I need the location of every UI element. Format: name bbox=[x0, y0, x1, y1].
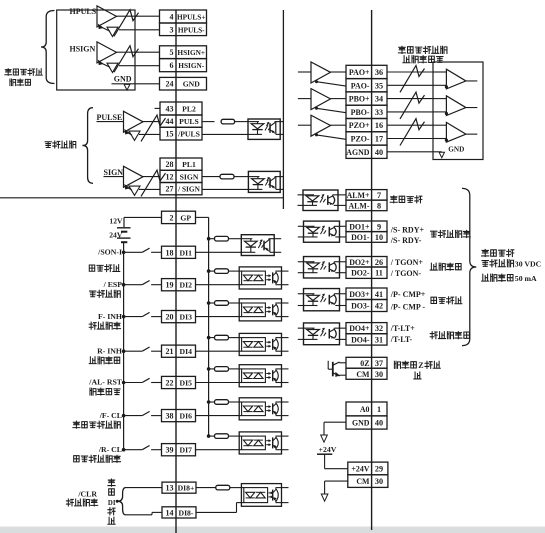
ground symbol (24V return) bbox=[321, 494, 328, 501]
svg-text:17: 17 bbox=[375, 134, 383, 143]
label 伺服报警 bbox=[390, 196, 397, 203]
junction COM+ bus to R-DI6 bbox=[207, 400, 211, 404]
svg-text:/F- CL: /F- CL bbox=[99, 411, 122, 420]
wire pin 2 GP to COM+ bus bbox=[196, 216, 209, 218]
svg-text:20: 20 bbox=[166, 313, 174, 322]
svg-text:35: 35 bbox=[375, 81, 383, 90]
svg-text:GND: GND bbox=[448, 145, 464, 153]
connector pin 36 PAO+ bbox=[346, 65, 387, 78]
svg-text:GND: GND bbox=[183, 80, 201, 89]
wire pin 44 to resistor R1 bbox=[202, 121, 215, 123]
optocoupler DI6 bbox=[239, 398, 281, 420]
label 光耦输出 bbox=[482, 249, 489, 256]
optocoupler DO4 output bbox=[304, 323, 340, 345]
svg-text:DO1+: DO1+ bbox=[349, 222, 370, 231]
twisted pair mark encoder 2 bbox=[400, 92, 425, 119]
svg-text:44: 44 bbox=[166, 117, 174, 126]
wire resistor to optocoupler DI7 bbox=[229, 435, 240, 437]
svg-text:+24V: +24V bbox=[319, 445, 337, 454]
label 报警复位 bbox=[90, 388, 96, 395]
svg-text:DI2: DI2 bbox=[180, 281, 193, 290]
ground symbol (receiver) bbox=[439, 152, 444, 157]
svg-text:28: 28 bbox=[166, 160, 174, 169]
brace - opto outputs group bbox=[462, 188, 476, 345]
wire /SIGN to pin 27 bbox=[139, 188, 160, 190]
connector pin 40 GND bbox=[346, 416, 387, 429]
external battery 12V/24V bbox=[123, 217, 125, 227]
wire CM pin to ground bbox=[325, 480, 348, 482]
svg-text:18: 18 bbox=[166, 248, 174, 257]
connector pin 35 PAO- bbox=[346, 79, 387, 92]
connector pin 3 HPULS- bbox=[160, 23, 207, 36]
wire pin 12 to resistor R2 bbox=[202, 176, 220, 178]
svg-text:/ TGON-: / TGON- bbox=[390, 269, 422, 278]
svg-text:PBO+: PBO+ bbox=[349, 95, 370, 104]
wire to pin 13 DI8+ bbox=[126, 487, 163, 489]
scan artifact grey band at bottom bbox=[0, 527, 545, 533]
svg-text:4: 4 bbox=[170, 13, 174, 22]
twisted pair mark HSIGN bbox=[114, 46, 139, 72]
connector pin 29 +24V bbox=[348, 462, 388, 475]
wire +24V to pin 29 bbox=[325, 468, 348, 470]
svg-text:5: 5 bbox=[170, 48, 174, 57]
wire AGND to receiver ground bbox=[387, 151, 442, 153]
svg-text:CM: CM bbox=[356, 370, 370, 379]
connector pin 41 DO3+ bbox=[346, 288, 387, 300]
svg-text:6: 6 bbox=[170, 61, 174, 70]
connector pin 26 DO2+ bbox=[346, 257, 387, 268]
svg-text:19: 19 bbox=[166, 281, 174, 290]
switch DI4 bbox=[122, 349, 126, 353]
label 编码器分频脉 bbox=[398, 46, 405, 53]
resistor R2 (SIGN) bbox=[220, 174, 234, 179]
wire PULSE input bbox=[97, 121, 124, 123]
svg-text:PAO-: PAO- bbox=[351, 81, 370, 90]
wire pin 14 to optocoupler DI8 (jog) bbox=[196, 511, 237, 513]
svg-text:36: 36 bbox=[375, 68, 383, 77]
connector pin 21 DI4 bbox=[162, 345, 196, 357]
wire HPULS- to pin 3 bbox=[119, 29, 160, 31]
svg-text:33: 33 bbox=[375, 108, 383, 117]
svg-text:9: 9 bbox=[377, 222, 381, 231]
connector pin 37 0Z bbox=[346, 357, 387, 368]
receiver triangle U9 bbox=[446, 96, 466, 116]
svg-text:AGND: AGND bbox=[346, 148, 370, 157]
label 高速脉冲位置指令 bbox=[5, 69, 12, 76]
connector pin 17 PZO- bbox=[346, 132, 387, 145]
wire pin 20 to optocoupler DI3 bbox=[196, 316, 240, 318]
svg-text:26: 26 bbox=[375, 258, 383, 267]
wire GND to pin 24 bbox=[112, 83, 160, 85]
wire battery minus bus bbox=[123, 242, 125, 450]
optocoupler DI7 bbox=[239, 432, 281, 454]
connector pin 30 CM bbox=[346, 368, 387, 379]
line driver HSIGN U2 bbox=[97, 42, 117, 63]
wire PULS to pin 44 bbox=[143, 121, 160, 123]
switch DI5 bbox=[122, 381, 126, 385]
label 反转禁止 bbox=[89, 357, 96, 364]
svg-text:41: 41 bbox=[375, 290, 383, 299]
wire encoder pair 2 to receiver bbox=[387, 98, 433, 100]
label 高速DI通道 (vertical) bbox=[108, 479, 115, 486]
ground symbol (host) bbox=[124, 84, 130, 90]
connector pin 8 ALM- bbox=[346, 200, 387, 211]
svg-text:7: 7 bbox=[377, 191, 381, 200]
svg-text:2: 2 bbox=[170, 213, 174, 222]
optocoupler DO2 output bbox=[304, 257, 340, 278]
svg-text:ALM+: ALM+ bbox=[347, 191, 370, 200]
connector pin 43 PL2 bbox=[160, 102, 202, 115]
svg-text:/P- CMP -: /P- CMP - bbox=[390, 302, 426, 311]
label 反转转矩限制 bbox=[74, 456, 79, 462]
svg-text:43: 43 bbox=[166, 105, 174, 114]
connector pin 40 AGND bbox=[346, 145, 387, 158]
svg-text:DO2+: DO2+ bbox=[349, 258, 370, 267]
svg-text:16: 16 bbox=[375, 121, 383, 130]
svg-text:/ ESP: / ESP bbox=[103, 280, 123, 289]
twisted pair mark PULSE bbox=[141, 115, 166, 141]
label 位置指令 bbox=[45, 142, 51, 148]
svg-text:DI8-: DI8- bbox=[179, 508, 194, 517]
resistor R-DI2 bbox=[215, 269, 229, 274]
junction COM+ bus to R-DI5 bbox=[207, 367, 211, 371]
optocoupler DI1 bbox=[241, 235, 274, 256]
twisted pair mark HPULS bbox=[114, 10, 139, 37]
resistor R-DI4 bbox=[215, 335, 229, 340]
svg-text:PBO-: PBO- bbox=[351, 108, 370, 117]
wire SIGN to pin 12 bbox=[143, 176, 160, 178]
wire pin 39 to optocoupler DI7 bbox=[196, 449, 240, 451]
connector pin 16 PZO+ bbox=[346, 119, 387, 132]
resistor R-DI1 bbox=[215, 236, 229, 241]
svg-text:14: 14 bbox=[166, 508, 174, 517]
wire to pin 14 DI8- bbox=[126, 514, 153, 516]
connector pin 7 ALM+ bbox=[346, 190, 387, 201]
svg-text:+24V: +24V bbox=[351, 464, 369, 473]
svg-text:/T-LT+: /T-LT+ bbox=[390, 324, 415, 333]
svg-text:R- INH: R- INH bbox=[97, 346, 122, 355]
encoder buffer U7 bbox=[298, 124, 311, 126]
receiver box (host side) bbox=[433, 62, 483, 160]
wire HSIGN+ to pin 5 bbox=[117, 51, 160, 53]
svg-text:38: 38 bbox=[166, 412, 174, 421]
svg-text:34: 34 bbox=[375, 95, 383, 104]
svg-text:DO1-: DO1- bbox=[351, 233, 370, 242]
connector pin 42 DO3- bbox=[346, 300, 387, 312]
svg-text:SIGN: SIGN bbox=[104, 168, 124, 177]
optocoupler DO1 output bbox=[304, 221, 340, 242]
wire stub left of pin 43 bbox=[155, 107, 161, 109]
transistor Q1 (open collector Z output) bbox=[332, 362, 334, 377]
svg-text:30: 30 bbox=[375, 370, 383, 379]
label 脉冲清除 bbox=[66, 499, 73, 506]
label 紧急停止 bbox=[90, 291, 96, 297]
connector pin 10 DO1- bbox=[346, 232, 387, 243]
optocoupler DI5 bbox=[239, 365, 281, 387]
svg-text:12V: 12V bbox=[109, 217, 123, 226]
wire resistor to optocoupler DI3 bbox=[229, 302, 240, 304]
connector pin 30 CM (bottom) bbox=[348, 475, 388, 488]
switch DI2 bbox=[122, 283, 126, 287]
svg-text:11: 11 bbox=[375, 269, 383, 278]
encoder buffer U5 bbox=[298, 71, 311, 73]
svg-text:PL2: PL2 bbox=[182, 105, 196, 114]
wire pin 27 to optocoupler bbox=[202, 188, 248, 190]
connector pin 19 DI2 bbox=[162, 279, 196, 291]
svg-text:42: 42 bbox=[375, 302, 383, 311]
connector pin 20 DI3 bbox=[162, 311, 196, 323]
svg-text:/AL- RST: /AL- RST bbox=[88, 378, 123, 387]
svg-text:24: 24 bbox=[166, 80, 174, 89]
twisted pair mark encoder 1 bbox=[400, 66, 425, 93]
wire pin 38 to optocoupler DI6 bbox=[196, 415, 240, 417]
svg-text:29: 29 bbox=[375, 464, 383, 473]
connector pin 6 HSIGN- bbox=[160, 59, 207, 72]
connector pin 9 DO1+ bbox=[346, 221, 387, 232]
svg-text:/P- CMP+: /P- CMP+ bbox=[390, 290, 426, 299]
svg-text:HPULS-: HPULS- bbox=[178, 25, 205, 34]
switch DI6 bbox=[122, 414, 126, 418]
junction COM+ bus to R-DI7 bbox=[207, 434, 211, 438]
svg-text:PL1: PL1 bbox=[182, 160, 196, 169]
svg-text:DO4-: DO4- bbox=[351, 335, 370, 344]
switch DI3 bbox=[122, 315, 126, 319]
brace - high speed pulse group bbox=[41, 11, 55, 84]
optocoupler DI4 bbox=[239, 333, 281, 355]
connector pin 39 DI7 bbox=[162, 444, 196, 456]
connector pin 14 DI8- bbox=[162, 507, 196, 518]
connector pin 4 HPULS+ bbox=[160, 10, 207, 23]
svg-text:DO2-: DO2- bbox=[351, 269, 370, 278]
optocoupler SIGN input bbox=[248, 171, 280, 192]
svg-text:30 VDC: 30 VDC bbox=[515, 260, 542, 269]
svg-text:GP: GP bbox=[180, 213, 191, 222]
svg-text:A0: A0 bbox=[360, 405, 370, 414]
svg-text:DI7: DI7 bbox=[180, 446, 193, 455]
wire pin 22 to optocoupler DI5 bbox=[196, 382, 240, 384]
svg-text:DI: DI bbox=[108, 500, 116, 507]
twisted pair mark encoder 3 bbox=[400, 119, 425, 146]
high-speed pulse host controller box bbox=[57, 10, 135, 90]
svg-text:SIGN: SIGN bbox=[180, 172, 199, 181]
svg-text:/CLR: /CLR bbox=[77, 490, 97, 499]
resistor R-DI8 bbox=[216, 485, 230, 490]
label 伺服使能 bbox=[89, 265, 94, 271]
svg-text:DO4+: DO4+ bbox=[349, 324, 370, 333]
svg-text:DO3-: DO3- bbox=[351, 302, 370, 311]
connector pin 22 DI5 bbox=[162, 376, 196, 388]
wire pin 21 to optocoupler DI4 bbox=[196, 350, 240, 352]
svg-text:31: 31 bbox=[375, 335, 383, 344]
receiver triangle U8 bbox=[446, 69, 466, 89]
connector pin 2 GP bbox=[162, 211, 196, 223]
svg-text:21: 21 bbox=[166, 347, 174, 356]
svg-text:8: 8 bbox=[377, 201, 381, 210]
resistor R-DI5 bbox=[215, 367, 229, 372]
svg-text:13: 13 bbox=[166, 484, 174, 493]
connector pin 27 /SIGN bbox=[160, 183, 202, 195]
svg-text:37: 37 bbox=[375, 359, 383, 368]
label 位置到达 bbox=[431, 297, 437, 303]
connector pin 38 DI6 bbox=[162, 410, 196, 422]
svg-text:DO3+: DO3+ bbox=[349, 290, 370, 299]
svg-text:/SON-I: /SON-I bbox=[97, 248, 122, 257]
svg-text:/S- RDY-: /S- RDY- bbox=[390, 236, 422, 245]
connector pin 1 A0 bbox=[346, 402, 387, 416]
connector pin 31 DO4- bbox=[346, 334, 387, 345]
ground symbol (analog) bbox=[321, 435, 328, 442]
svg-text:/T-LT-: /T-LT- bbox=[390, 335, 413, 344]
wire - CN1 left pin-number divider vertical line bbox=[175, 10, 177, 533]
line driver PULSE U3 bbox=[124, 111, 144, 132]
wire SIGN input bbox=[104, 176, 124, 178]
encoder buffer U6 bbox=[298, 98, 311, 100]
svg-text:GND: GND bbox=[114, 75, 132, 84]
svg-text:HSIGN+: HSIGN+ bbox=[177, 48, 205, 57]
svg-text:0Z: 0Z bbox=[360, 359, 369, 368]
svg-text:40: 40 bbox=[375, 419, 383, 428]
+24V power rail symbol bbox=[317, 453, 332, 455]
wire /PULS to pin 15 bbox=[139, 133, 160, 135]
optocoupler DI3 bbox=[239, 299, 281, 321]
svg-text:DI4: DI4 bbox=[180, 347, 193, 356]
svg-text:PULSE: PULSE bbox=[97, 113, 123, 122]
label 伺服准备好 bbox=[431, 231, 437, 237]
line driver HPULS U1 bbox=[97, 6, 117, 27]
svg-text:HSIGN-: HSIGN- bbox=[178, 61, 205, 70]
wire pin 13 to resistor R-DI8 bbox=[196, 487, 216, 489]
wire - CN1 right pin-number divider vertical line bbox=[371, 10, 373, 530]
resistor R1 (PULS) bbox=[221, 119, 235, 124]
junction COM+ bus to R-DI4 bbox=[207, 336, 211, 340]
connector pin 34 PBO+ bbox=[346, 92, 387, 105]
switch DI1 bbox=[122, 251, 126, 255]
wire HSIGN- to pin 6 bbox=[119, 65, 160, 67]
svg-text:CM: CM bbox=[356, 477, 370, 486]
svg-text:/R- CL: /R- CL bbox=[98, 445, 122, 454]
svg-text:/ SIGN: / SIGN bbox=[177, 185, 200, 194]
connector pin 24 GND bbox=[160, 77, 207, 90]
junction COM+ bus to R-DI3 bbox=[207, 301, 211, 305]
twisted pair mark SIGN bbox=[141, 170, 166, 196]
connector pin 12 SIGN bbox=[160, 170, 202, 182]
wire resistor to optocoupler DI1 bbox=[229, 238, 242, 240]
wire resistor to optocoupler DI5 bbox=[229, 368, 240, 370]
brace - position command group bbox=[82, 108, 93, 184]
svg-text:/PULS: /PULS bbox=[177, 130, 200, 139]
svg-text:22: 22 bbox=[166, 379, 174, 388]
svg-text:DI8+: DI8+ bbox=[178, 484, 195, 493]
wire resistor to optocoupler DI8 bbox=[230, 487, 242, 489]
svg-text:15: 15 bbox=[166, 130, 174, 139]
optocoupler ALM output bbox=[303, 190, 338, 211]
connector pin 33 PBO- bbox=[346, 105, 387, 118]
svg-text:32: 32 bbox=[375, 324, 383, 333]
wire HPULS+ to pin 4 bbox=[117, 15, 160, 17]
svg-text:DI3: DI3 bbox=[180, 313, 193, 322]
label 正转转矩限制 bbox=[73, 421, 80, 428]
svg-text:PAO+: PAO+ bbox=[349, 68, 370, 77]
svg-text:50 mA: 50 mA bbox=[515, 274, 537, 283]
svg-text:PZO-: PZO- bbox=[351, 134, 370, 143]
wire pin 15 to optocoupler bbox=[202, 133, 248, 135]
connector pin 13 DI8+ bbox=[162, 482, 196, 493]
label 正转禁止 bbox=[89, 322, 96, 329]
label 转矩限制中 bbox=[430, 332, 437, 339]
svg-text:F- INH: F- INH bbox=[98, 312, 122, 321]
connector pin 44 PULS bbox=[160, 115, 202, 127]
junction COM+ bus to R-DI1 bbox=[207, 237, 211, 241]
svg-text:27: 27 bbox=[166, 185, 174, 194]
label 旋转检出 bbox=[430, 263, 437, 270]
wire resistor to optocoupler DI2 bbox=[229, 270, 240, 272]
label 最大电流50 mA bbox=[482, 274, 489, 281]
svg-text:DI5: DI5 bbox=[180, 379, 193, 388]
optocoupler DO3 output bbox=[304, 289, 340, 311]
svg-text:40: 40 bbox=[375, 148, 383, 157]
optocoupler DI2 bbox=[239, 267, 281, 289]
svg-text:1: 1 bbox=[377, 405, 381, 414]
receiver triangle U10 bbox=[446, 122, 466, 142]
switch DI7 bbox=[122, 448, 126, 452]
svg-text:/ TGON+: / TGON+ bbox=[390, 258, 424, 267]
svg-text:DI1: DI1 bbox=[180, 248, 193, 257]
wire battery to pin 2 GP bbox=[124, 216, 162, 218]
svg-text:HSIGN: HSIGN bbox=[70, 45, 96, 54]
svg-text:HPULS+: HPULS+ bbox=[177, 13, 206, 22]
junction COM+ bus to R-DI2 bbox=[207, 269, 211, 273]
svg-text:HPULS: HPULS bbox=[70, 7, 97, 16]
wire encoder pair 3 to receiver bbox=[387, 124, 433, 126]
optocoupler DI8 bbox=[241, 484, 281, 507]
wire resistor to optocoupler DI6 bbox=[229, 401, 240, 403]
svg-text:ALM-: ALM- bbox=[348, 201, 369, 210]
brace - high speed DI channel bbox=[117, 488, 125, 515]
label 最大电压30 VDC bbox=[482, 261, 488, 267]
svg-text:DI6: DI6 bbox=[180, 412, 193, 421]
wire pin 18 to optocoupler DI1 bbox=[196, 251, 242, 253]
svg-text:PZO+: PZO+ bbox=[349, 121, 370, 130]
connector pin 32 DO4+ bbox=[346, 323, 387, 334]
svg-text:/S- RDY+: /S- RDY+ bbox=[390, 225, 425, 234]
connector pin 28 PL1 bbox=[160, 158, 202, 170]
resistor R-DI7 bbox=[215, 434, 229, 439]
svg-text:39: 39 bbox=[166, 446, 174, 455]
connector pin 18 DI1 bbox=[162, 246, 196, 258]
wire resistor to optocoupler DI4 bbox=[229, 337, 240, 339]
resistor R-DI3 bbox=[215, 301, 229, 306]
connector pin 11 DO2- bbox=[346, 267, 387, 278]
wire GND pin to ground bbox=[324, 421, 346, 423]
svg-text:Z: Z bbox=[418, 361, 423, 370]
svg-text:10: 10 bbox=[375, 233, 383, 242]
connector pin 5 HSIGN+ bbox=[160, 46, 207, 59]
label 冲差分输出 bbox=[403, 56, 410, 63]
optocoupler PULS input bbox=[248, 119, 280, 139]
svg-text:12: 12 bbox=[166, 172, 174, 181]
svg-text:30: 30 bbox=[375, 477, 383, 486]
svg-text:GND: GND bbox=[352, 419, 370, 428]
wire - internal bus vertical line (left optocoupler returns) bbox=[282, 10, 284, 209]
resistor R-DI6 bbox=[215, 400, 229, 405]
wire resistor R2 to optocoupler bbox=[234, 176, 248, 178]
label 出 bbox=[414, 372, 421, 379]
wire encoder pair 1 to receiver bbox=[387, 71, 433, 73]
wire pin 19 to optocoupler DI2 bbox=[196, 284, 240, 286]
label 集电极Z相输 bbox=[394, 361, 400, 368]
line driver SIGN U4 bbox=[124, 166, 144, 187]
horizontal section divider line bbox=[0, 197, 283, 199]
